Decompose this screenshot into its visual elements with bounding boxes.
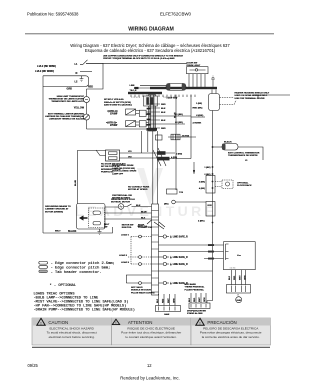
svg-text:2900+2x W 3877/T3 (5C/E): 2900+2x W 3877/T3 (5C/E) [104, 102, 131, 104]
bottom rule [32, 346, 270, 349]
svg-text:4400 W 2900 W 4 (5C/E/4C): 4400 W 2900 W 4 (5C/E/4C) [104, 104, 132, 107]
svg-text:TERMOSTATO DE LIMITE ALTO: TERMOSTATO DE LIMITE ALTO [51, 100, 84, 103]
svg-text:TVS: TVS [179, 192, 184, 194]
heater 2 element [126, 121, 136, 127]
svg-text:OPTIONAL: OPTIONAL [237, 182, 249, 185]
svg-text:electrical current before serv: electrical current before servicing. [49, 335, 95, 339]
svg-text:* - OPTIONAL: * - OPTIONAL [50, 283, 77, 288]
door switch lower box [106, 150, 120, 161]
svg-text:USED ON SOME MODELS NO.1: USED ON SOME MODELS NO.1 [235, 95, 268, 97]
terminal block small [134, 87, 138, 89]
svg-text:L1(BK): L1(BK) [196, 115, 203, 117]
svg-text:FLOOR RACK: FLOOR RACK [237, 184, 252, 187]
svg-text:GRD: GRD [67, 88, 73, 91]
svg-text:MOTOR AT SPEED: MOTOR AT SPEED [128, 188, 148, 191]
svg-text:INT DE PORTE NF: INT DE PORTE NF [101, 166, 121, 168]
heater housing leader dashes [220, 98, 237, 105]
svg-text:TB-1,E: TB-1,E [130, 90, 137, 92]
svg-text:RED: RED [88, 86, 93, 89]
svg-text:EDGE: EDGE [138, 225, 145, 227]
svg-text:09/25: 09/25 [28, 363, 39, 368]
motor switch contact 2 [93, 222, 101, 225]
triac row 3 [139, 263, 142, 266]
svg-text:RED: RED [161, 128, 166, 130]
svg-text:USE COPPER CONDUCTORS ONLY IF: USE COPPER CONDUCTORS ONLY IF CONNECTED … [103, 54, 183, 57]
svg-text:RED: RED [161, 104, 166, 106]
svg-text:MODELS W/ DOOR: MODELS W/ DOOR [131, 290, 151, 292]
thermistor cylinder [212, 146, 214, 148]
svg-text:BLUE: BLUE [141, 212, 147, 214]
svg-text:MOTEUR: MOTOR: MOTEUR: MOTOR [111, 202, 130, 204]
svg-text:BLK: BLK [141, 218, 146, 220]
main harness bus bar bottom [128, 92, 162, 94]
thermal fuse cylinder [166, 83, 186, 90]
main harness bus bar top [150, 87, 217, 89]
svg-text:RCK: RCK [208, 205, 213, 207]
svg-text:2700W: 2700W [110, 114, 118, 116]
heater wires to connectors [136, 111, 140, 126]
svg-text:CABINET GROUND AT: CABINET GROUND AT [45, 208, 69, 211]
svg-text:4 (RD): 4 (RD) [171, 156, 177, 159]
motor ground [98, 229, 102, 235]
svg-text:USE FOR TERMINAL COVER: USE FOR TERMINAL COVER [235, 97, 265, 100]
svg-text:HEATER HOUSING SHIELD ONLY: HEATER HOUSING SHIELD ONLY [235, 92, 270, 95]
triac row 2 [139, 256, 142, 259]
triac row 1 [139, 235, 142, 238]
hp module bottom pins [232, 270, 246, 285]
svg-text:RED (BK): RED (BK) [193, 108, 203, 110]
svg-text:BLK: BLK [136, 205, 141, 207]
svg-text:DRIVE MOTOR 2 POLE: DRIVE MOTOR 2 POLE [111, 199, 135, 201]
svg-text:4 (BK): 4 (BK) [198, 220, 205, 223]
svg-text:PRECAUCIÓN: PRECAUCIÓN [207, 320, 236, 325]
svg-text:NC DOOR SW (VIOLET): NC DOOR SW (VIOLET) [101, 164, 126, 166]
triac row 4 [139, 282, 142, 285]
svg-text:Rendered by LeadVenture, Inc.: Rendered by LeadVenture, Inc. [120, 376, 179, 381]
svg-text:GROUNDING MEANS TO: GROUNDING MEANS TO [45, 205, 71, 208]
door/drum light switch box [187, 67, 209, 74]
svg-text:MOTOR (GREEN): MOTOR (GREEN) [45, 211, 63, 213]
svg-text:CIRCUIT. TORQUE TERMINAL BLOCK: CIRCUIT. TORQUE TERMINAL BLOCK NUTS TO 2… [103, 57, 175, 60]
solid row with corner [126, 275, 151, 283]
motor wires [105, 204, 158, 213]
svg-text:!: ! [115, 321, 116, 325]
strip1 right pins [156, 104, 192, 128]
heater housing leader line [253, 95, 290, 99]
svg-text:BLK: BLK [161, 112, 166, 114]
svg-text:- Edge connector pitch 5mm;: - Edge connector pitch 5mm; [51, 266, 111, 271]
svg-text:L1/L2 (BK W/BK): L1/L2 (BK W/BK) [37, 65, 56, 68]
caution box FR [112, 318, 192, 345]
caution box ES [191, 318, 271, 345]
bottom connector right [191, 293, 213, 303]
svg-text:GRN: GRN [204, 297, 206, 302]
svg-text:INTERRUPTOR DE: INTERRUPTOR DE [101, 169, 121, 171]
svg-text:THERMISTANCE DE SORTIE: THERMISTANCE DE SORTIE [228, 154, 258, 157]
ground pin above bus [211, 76, 215, 87]
svg-text:WT.SPLY HTR.&.EL: WT.SPLY HTR.&.EL [104, 99, 125, 101]
long row 271 [159, 270, 213, 272]
svg-text:CAUTION: CAUTION [48, 320, 68, 325]
legend edge connector 2.5mm [39, 261, 48, 264]
hp module box [224, 242, 256, 270]
svg-text:1 2 3 4 5 6: 1 2 3 4 5 6 [131, 97, 140, 99]
svg-text:BLUE: BLUE [174, 112, 176, 118]
svg-text:2700W: 2700W [110, 125, 118, 127]
blue wire to motor [77, 151, 105, 204]
terminal box on right bus [206, 202, 215, 217]
svg-text:Esquema de cableado eléctrico: Esquema de cableado eléctrico - 637 Seca… [85, 48, 216, 53]
door switch pins [189, 74, 205, 88]
svg-text:CENTRIFUGAL SW: CENTRIFUGAL SW [112, 194, 133, 197]
svg-text:1 (BK): 1 (BK) [204, 167, 210, 169]
svg-text:BLK: BLK [189, 297, 191, 302]
bottom connector J4A [159, 294, 176, 306]
wire neutral left drop [42, 76, 44, 233]
svg-text:WIRING DIAGRAM: WIRING DIAGRAM [128, 27, 174, 33]
wire thermostat chain to center [87, 128, 149, 130]
svg-text:RED: RED [234, 275, 236, 280]
svg-text:- Edge connector pitch 2.5mm;: - Edge connector pitch 2.5mm; [51, 261, 115, 266]
svg-text:2 (CW 100): 2 (CW 100) [167, 98, 178, 100]
svg-text:- Tab header connector.: - Tab header connector. [51, 270, 102, 275]
svg-text:THERMOSTAT DE LIMITE ELEVEE: THERMOSTAT DE LIMITE ELEVEE [48, 98, 84, 101]
svg-text:PUERTA NC: PUERTA NC [101, 171, 114, 174]
svg-text:-DRAIN PUMP-->CONNECTED TO LIN: -DRAIN PUMP-->CONNECTED TO LINE SAFE(HP … [34, 308, 135, 313]
long row to hp module pin1 [159, 244, 224, 246]
motor bottom wire [43, 227, 113, 233]
relay box on strip1 top [144, 96, 158, 106]
svg-text:BELT: BELT [55, 231, 61, 233]
svg-text:YELLOW: YELLOW [74, 107, 85, 110]
svg-text:STAND ALONE: STAND ALONE [187, 312, 203, 315]
motor inner switch dashed box [89, 208, 105, 228]
svg-text:BLUE: BLUE [75, 180, 77, 186]
svg-text:DOOR SW: DOOR SW [187, 63, 199, 65]
svg-text:RED: RED [194, 297, 196, 302]
svg-text:=(HTR-2)=: =(HTR-2)= [106, 122, 118, 124]
header rule [25, 33, 274, 34]
svg-text:SW: SW [104, 226, 107, 228]
motor switch contact 1 [93, 211, 101, 214]
svg-text:!: ! [40, 321, 41, 325]
svg-text:2 (BK): 2 (BK) [204, 174, 210, 176]
svg-text:L1/L2 (RD W/RD): L1/L2 (RD W/RD) [35, 70, 54, 73]
svg-text:GRN: GRN [244, 275, 246, 280]
svg-text:FLASH PEDESTAL: FLASH PEDESTAL [185, 288, 205, 291]
long row to hp module pin2 [159, 251, 224, 253]
svg-text:J2 (RD): J2 (RD) [182, 136, 190, 138]
svg-text:BLK: BLK [229, 275, 231, 280]
right bus vertical [212, 111, 214, 301]
svg-text:la corriente eléctrica antes d: la corriente eléctrica antes de dar serv… [202, 335, 260, 339]
svg-text:LOAD 2: LOAD 2 [119, 254, 128, 257]
hp module connector [226, 285, 250, 293]
svg-text:4 (BK): 4 (BK) [199, 187, 205, 190]
svg-text:HIGH LIMIT THERMOSTAT: HIGH LIMIT THERMOSTAT [57, 95, 85, 98]
svg-text:le courant électrique avant l': le courant électrique avant l'entretien. [126, 335, 177, 339]
EHE circle [236, 297, 242, 303]
svg-text:GRN: GRN [174, 298, 176, 303]
motor circle [118, 204, 124, 210]
caution box EN [32, 318, 112, 345]
svg-text:EXIT THERMAL LIMITER (BROWN): EXIT THERMAL LIMITER (BROWN) [48, 113, 84, 116]
svg-text:12: 12 [147, 363, 152, 368]
motor assembly box [77, 204, 106, 230]
U-loop wire with L2 and GRD [43, 76, 89, 87]
svg-text:BLK: BLK [161, 120, 166, 122]
legend edge connector 5mm [39, 266, 48, 269]
svg-text:1 2 3 4: 1 2 3 4 [230, 268, 236, 270]
svg-text:J8: J8 [237, 294, 239, 296]
optional floor rack dashed box [215, 182, 222, 187]
svg-text:NO CONTACT RUNS: NO CONTACT RUNS [128, 186, 150, 189]
blue vertical wire center [175, 95, 177, 190]
svg-text:LINE: LINE [130, 85, 136, 87]
motor thermal protector arrow [79, 215, 88, 220]
svg-text:BLACK: BLACK [68, 230, 77, 233]
bus pins [131, 95, 195, 97]
heater connector 2 [139, 121, 146, 127]
svg-text:NOT VALID: NOT VALID [131, 286, 143, 289]
svg-text:RED: RED [163, 298, 165, 303]
svg-text:BLK BARE: BLK BARE [185, 283, 197, 286]
svg-text:WHT: WHT [239, 275, 241, 280]
svg-text:LAMP OFF: LAMP OFF [112, 172, 124, 175]
svg-text:VIO: VIO [128, 151, 132, 153]
svg-text:BLACK: BLACK [224, 141, 232, 144]
svg-text:CONNECTOR: CONNECTOR [138, 227, 152, 229]
svg-text:ATTENTION: ATTENTION [128, 320, 153, 325]
svg-text:Publication No: 5995748638: Publication No: 5995748638 [27, 12, 79, 17]
svg-text:BLK: BLK [157, 298, 159, 303]
svg-text:!: ! [199, 321, 200, 325]
svg-text:1 (BK): 1 (BK) [196, 103, 202, 105]
svg-text:4 RD/BK: 4 RD/BK [193, 122, 202, 125]
svg-text:2P/2P(GR) DRYER: 2P/2P(GR) DRYER [187, 311, 206, 313]
high limit thermostat [84, 97, 90, 103]
svg-text:ELFE762CBW0: ELFE762CBW0 [160, 12, 192, 17]
svg-text:(BK): (BK) [164, 204, 169, 206]
right bus junction labels [212, 166, 214, 168]
svg-text:WHT: WHT [199, 297, 201, 302]
small box end of blue wire [167, 189, 178, 194]
svg-text:BLK: BLK [161, 108, 166, 110]
svg-text:LIMITEUR DE CHALEUR THERMIQUE: LIMITEUR DE CHALEUR THERMIQUE [45, 115, 85, 118]
svg-text:N: N [76, 72, 78, 75]
svg-text:LOAD 3: LOAD 3 [121, 261, 130, 264]
wire top L1 to door switch [86, 62, 187, 64]
svg-text:THERM PEDESTAL: THERM PEDESTAL [185, 286, 206, 289]
red vertical wire center [190, 95, 192, 159]
heater connector 1 [139, 110, 146, 116]
svg-text:WHT: WHT [168, 298, 170, 303]
ground symbol small [80, 76, 84, 82]
thermal limiter [84, 114, 90, 120]
main edge connector strip 1 [149, 95, 156, 131]
door sw wires [120, 131, 158, 213]
igniter connector [168, 136, 196, 138]
svg-text:VIO: VIO [128, 156, 132, 158]
svg-text:J4A8: J4A8 [164, 313, 170, 316]
svg-text:3 (BK): 3 (BK) [199, 182, 205, 184]
svg-text:RUN POS.: RUN POS. [122, 227, 132, 229]
svg-text:PULSE WASH CONFIG: PULSE WASH CONFIG [131, 291, 155, 294]
svg-text:LOAD 1: LOAD 1 [121, 234, 130, 237]
heater 1 element [126, 109, 136, 115]
svg-text:EXIT CONTROL THERMISTOR: EXIT CONTROL THERMISTOR [228, 153, 260, 155]
upper box on bus [206, 176, 215, 194]
legend tab header [39, 270, 48, 273]
svg-text:J (RD): J (RD) [176, 153, 182, 155]
svg-text:EHE: EHE [236, 300, 241, 302]
edge connector strip 2 [152, 204, 159, 295]
hp module left pins [204, 258, 224, 260]
wire strip1 down pair [148, 131, 158, 213]
watermark logo [137, 168, 163, 206]
heater housing rounded box [209, 94, 220, 111]
wire L1 drop [87, 63, 104, 89]
svg-text:LIMITADOR TERMICO DE SALIDA: LIMITADOR TERMICO DE SALIDA [49, 118, 84, 121]
svg-text:=(HTR-1)=: =(HTR-1)= [107, 111, 119, 113]
